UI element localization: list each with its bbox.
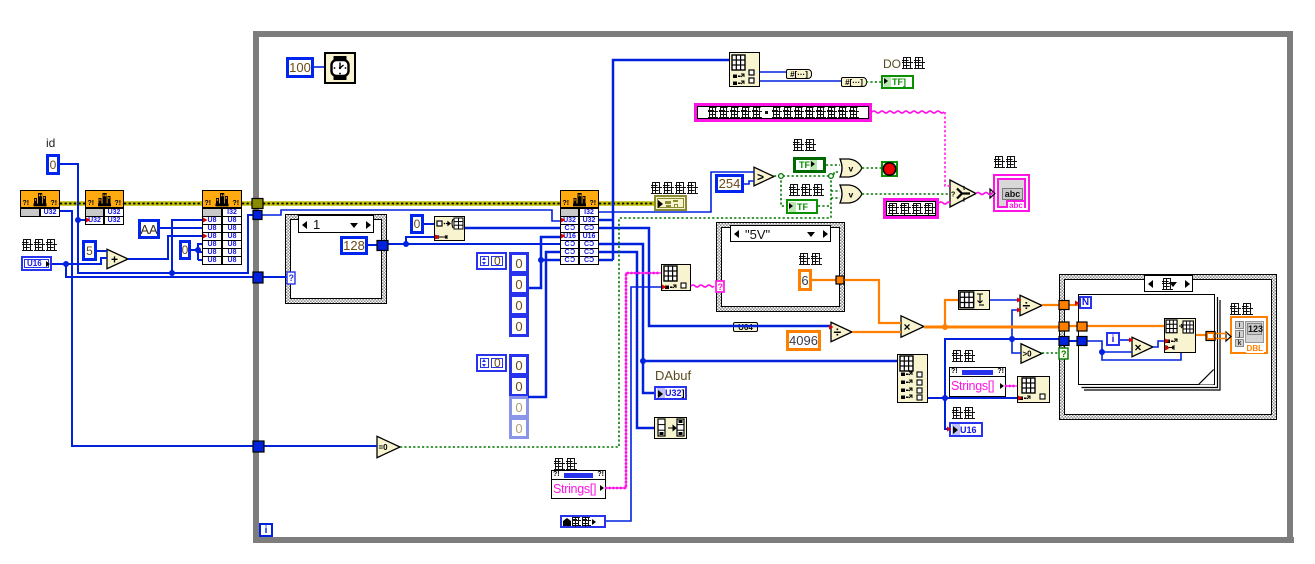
wire i out <box>1120 339 1132 341</box>
DAbuf U32 array control <box>654 386 687 400</box>
wire 0b s3 <box>198 259 202 261</box>
wire 5 to add <box>97 250 107 252</box>
wire or1 in2 <box>831 172 840 176</box>
wire node4 out <box>1196 334 1207 336</box>
wire 128 out <box>368 244 377 246</box>
wire 0b s1 <box>198 243 202 245</box>
call library function node U2 required dot <box>86 218 91 223</box>
wire 128 to U4 <box>388 243 560 245</box>
wire mid node out <box>691 285 714 287</box>
svg-text:?!: ?! <box>590 200 597 207</box>
wire gt out <box>774 175 831 177</box>
svg-text:?!: ?! <box>51 200 58 207</box>
constant 254 <box>715 174 744 193</box>
call library function node U1 <box>20 190 60 208</box>
out squares <box>749 70 754 75</box>
string constant hardware-abnormal <box>694 103 872 122</box>
wire init out <box>465 227 560 230</box>
call library function node U3 required dot <box>203 234 208 239</box>
for loop stacked edges <box>1082 297 1221 390</box>
svg-text:?: ? <box>1061 349 1067 359</box>
index array node mid <box>661 264 691 291</box>
node3 elem <box>1019 396 1030 400</box>
call library function node U3 <box>202 190 242 208</box>
build array node <box>1164 318 1196 353</box>
wire c31 u64 <box>599 228 831 326</box>
tunnel truecase or1 <box>1059 301 1069 310</box>
wire local up <box>606 287 661 521</box>
svg-text:?!: ?! <box>115 200 122 207</box>
label array <box>1229 303 1253 317</box>
call library function node U2 icon <box>98 193 111 206</box>
mid elem <box>665 285 676 289</box>
junction right node <box>942 395 948 401</box>
or junction rings <box>779 174 784 179</box>
tunnel blue T2 <box>253 272 263 283</box>
add function <box>107 249 128 269</box>
tunnel truecase selector <box>1059 348 1068 359</box>
call library function node U2 <box>85 190 124 208</box>
wire or1 out <box>862 167 881 169</box>
init array dim input <box>435 235 440 240</box>
svg-text:v: v <box>849 164 854 174</box>
wire x2 out <box>1153 341 1164 347</box>
index array mid icon <box>664 266 677 281</box>
case structure 5V <box>716 222 845 312</box>
tunnel 5v out <box>836 276 844 284</box>
svg-text:?!: ?! <box>563 200 570 207</box>
wire str abnormal down <box>945 112 950 186</box>
junction array1 <box>538 257 544 263</box>
hint string indicator <box>993 174 1030 212</box>
wire id to U2 <box>78 219 85 221</box>
case selector 1 <box>298 215 374 233</box>
or function 1 <box>840 159 862 177</box>
constant AA <box>138 219 160 239</box>
local variable range <box>560 515 606 528</box>
U64 conversion label <box>733 322 758 332</box>
stop TF control <box>793 157 826 173</box>
DO monitor TF indicator <box>881 75 914 89</box>
multiply function 2 <box>1132 337 1153 357</box>
wire array out b <box>1214 338 1227 340</box>
constant 128 <box>340 236 368 255</box>
case structure 1 <box>285 214 387 304</box>
tunnel case1 selector <box>287 272 295 284</box>
elem 1 <box>901 380 912 384</box>
svg-text:?!: ?! <box>205 200 212 207</box>
error out cluster indicator <box>654 195 687 211</box>
wire up 339 <box>945 339 1059 398</box>
watch icon <box>332 56 349 80</box>
elem 3 <box>901 395 912 399</box>
svg-text:×: × <box>904 320 911 334</box>
wire 6 out <box>812 279 837 281</box>
wire to u16 ind <box>945 398 949 429</box>
number to boolean array 1 <box>786 69 812 79</box>
initialize array node <box>434 216 465 241</box>
junction 0b <box>195 247 201 253</box>
label DO monitor <box>883 57 925 71</box>
wire idx out2 <box>760 80 841 82</box>
divide function 2 <box>1020 295 1042 315</box>
index array node right <box>897 354 928 403</box>
call library function node U4 <box>560 190 599 208</box>
label stop <box>792 139 816 153</box>
wire tunnel1 long <box>262 210 560 221</box>
wire x2 in2 <box>1102 351 1132 353</box>
node3 icon <box>1022 378 1035 393</box>
wire error err seg4 <box>263 201 560 206</box>
divide function 1 <box>831 322 852 342</box>
for loop count terminal N <box>1079 296 1092 309</box>
svg-text:=0: =0 <box>379 443 389 452</box>
tunnel blue T3 <box>253 441 264 452</box>
constant id 0 <box>46 154 60 175</box>
wire array1 branch <box>541 259 560 262</box>
card status TF indicator <box>786 199 818 214</box>
wire 100 to timer <box>314 66 324 68</box>
wire to maxmin <box>945 300 958 327</box>
for loop <box>1078 294 1215 385</box>
node4 elems <box>1166 339 1177 343</box>
initialize array icon <box>437 218 463 239</box>
wire mult out <box>924 326 1059 329</box>
wire do vertical <box>613 60 729 260</box>
wire or2 in1 <box>831 190 840 192</box>
label range bottom <box>553 458 577 472</box>
wire strings1 chain <box>606 273 661 488</box>
wire c32 branch <box>643 360 897 363</box>
elem 2 <box>901 388 912 392</box>
constant 6 <box>798 269 812 291</box>
while loop border <box>253 31 1293 37</box>
u16 coercion <box>947 427 952 432</box>
svg-text:?: ? <box>951 192 955 199</box>
svg-text:÷: ÷ <box>834 324 842 340</box>
wire case blue in <box>1069 340 1078 342</box>
call library function node U4 required dot <box>561 234 566 239</box>
elem 0 <box>901 372 912 376</box>
label sample-rate <box>21 239 57 253</box>
label error-out <box>650 182 698 196</box>
while loop iteration terminal i <box>259 523 273 537</box>
node3 input <box>1018 396 1023 401</box>
svg-text:>0: >0 <box>1023 350 1033 359</box>
tunnel case1 out <box>377 241 388 251</box>
label range right-top <box>951 350 975 364</box>
call library function node U4 icon <box>573 193 586 206</box>
constant 0 b <box>179 240 191 260</box>
stop button <box>881 161 898 177</box>
bool array icon <box>658 419 684 436</box>
tunnel forloop or <box>1077 322 1087 331</box>
array indicator arrow <box>1226 332 1231 341</box>
svg-text:?: ? <box>289 273 295 283</box>
wire 128 branch up <box>406 237 434 244</box>
wire forloop blue <box>1087 341 1181 360</box>
index array node top <box>729 52 760 87</box>
node4 dims <box>1166 345 1174 350</box>
index array icon <box>732 55 745 70</box>
div2 c2 <box>1017 308 1022 313</box>
stop button red circle <box>883 163 895 175</box>
node4 icon <box>1166 320 1193 333</box>
wire or2 out <box>862 193 950 195</box>
wire AA out <box>160 227 202 229</box>
for loop iteration terminal i <box>1106 332 1120 346</box>
wire gt down tf <box>781 176 786 206</box>
multiply function <box>901 316 924 337</box>
label range 5V <box>798 253 822 267</box>
tunnel error olive <box>252 199 263 209</box>
tunnel truecase blue <box>1059 337 1069 346</box>
wire tf out <box>818 205 831 207</box>
wire maxmin out <box>990 299 1020 301</box>
wire error err seg1 <box>60 201 85 206</box>
label card status <box>788 184 824 198</box>
svg-text:v: v <box>849 190 854 200</box>
label id <box>46 137 55 150</box>
call library function node U4 required dot <box>561 218 566 223</box>
junction id U2 <box>75 217 81 223</box>
wire 254 out <box>744 181 754 184</box>
boolean array to number node <box>654 417 687 439</box>
tunnel forloop index out <box>1206 332 1215 341</box>
wire c33 bool <box>599 252 654 428</box>
wire div1 out <box>852 331 901 333</box>
mid node input <box>662 285 667 290</box>
svg-text:×: × <box>1135 341 1142 355</box>
equal-zero function <box>377 436 400 457</box>
wire right node out <box>928 397 1017 399</box>
call library function node U3 icon <box>216 193 229 206</box>
svg-text:>: > <box>757 170 764 184</box>
wire div2 out <box>1042 304 1059 306</box>
tunnel 5v selector <box>716 281 724 292</box>
wire 0b vert <box>197 243 199 260</box>
junction 339 <box>1009 336 1015 342</box>
constant 5 <box>82 240 97 261</box>
wire c34 stub <box>599 259 613 262</box>
array constant 1 <box>476 252 507 270</box>
array indicator <box>1230 316 1268 354</box>
or function 2 <box>840 185 862 203</box>
wire stop to or1 <box>826 164 840 166</box>
wire array1 out <box>529 237 560 288</box>
wire v 831 <box>830 176 832 218</box>
svg-text:?!: ?! <box>23 200 30 207</box>
wire 0b s2 <box>198 251 202 253</box>
wire error err seg2 <box>124 201 202 206</box>
junction c32 <box>640 358 646 364</box>
wire str normal <box>939 202 950 204</box>
greater-than function <box>754 167 774 186</box>
tunnel truecase or2 <box>1059 322 1069 331</box>
svg-text:+: + <box>111 253 118 267</box>
hint input arrow <box>990 189 995 198</box>
wire error err seg3 <box>242 201 253 206</box>
svg-text:?!: ?! <box>88 200 95 207</box>
svg-text:?!: ?! <box>233 200 240 207</box>
wire add out <box>128 236 202 259</box>
junction x2 <box>1099 349 1105 355</box>
wire array2 out <box>528 252 560 397</box>
wire bool2tf <box>866 81 881 83</box>
wire str abnormal <box>872 111 944 113</box>
tunnel blue T1 <box>253 211 262 220</box>
range U16 indicator <box>949 422 983 437</box>
junction id U3 <box>169 270 175 276</box>
index array node 3 <box>1017 376 1050 403</box>
wire strings2 chain <box>1006 385 1017 387</box>
wire select out <box>976 193 993 195</box>
strings property node 2 <box>949 367 1006 397</box>
wire gt0 out <box>1042 352 1059 354</box>
div2 c1 <box>1017 298 1022 303</box>
array max icon <box>960 292 984 308</box>
wait ms timer function <box>324 52 356 84</box>
case selector 5V <box>730 225 831 242</box>
tunnel forloop blue <box>1077 337 1087 346</box>
label hint <box>993 156 1017 170</box>
div1 coercion <box>829 325 834 330</box>
call library function node U3 required dot <box>203 218 208 223</box>
wire c32 dabuf <box>599 244 654 393</box>
string constant hardware-normal <box>883 198 939 219</box>
x2 in dot <box>1129 338 1134 343</box>
label range right-bottom <box>951 407 975 421</box>
wire id to U3 <box>172 220 202 273</box>
svg-text:÷: ÷ <box>1023 297 1031 313</box>
svg-text:?: ? <box>718 282 724 292</box>
constant 4096 <box>786 330 821 351</box>
strings property node 1 <box>551 470 606 499</box>
wire error err seg5 <box>599 201 654 206</box>
array constant 2 <box>476 354 507 372</box>
wire U1 out to =0 <box>60 211 377 446</box>
wire 0b fan <box>191 249 198 251</box>
constant 0 c <box>410 214 424 234</box>
wire case or2 <box>1069 325 1164 327</box>
wire div2 in <box>1012 310 1020 339</box>
node4 in2 <box>1165 346 1170 351</box>
select function <box>950 180 976 207</box>
N coercion <box>1075 301 1080 306</box>
greater-than-zero function <box>1021 344 1042 364</box>
control sample-rate U16 <box>21 256 52 271</box>
wire 5v to mult <box>843 280 901 323</box>
junction samplerate <box>63 261 69 267</box>
call library function node U1 icon <box>34 193 47 206</box>
constant 100 <box>286 57 314 78</box>
case structure true <box>1059 274 1277 420</box>
wire 0c to init <box>424 223 434 225</box>
junction mult <box>942 324 948 330</box>
array max-min node <box>958 290 990 310</box>
wire case or1 <box>1069 304 1078 306</box>
index rows <box>733 74 744 78</box>
node4 in1 <box>1165 339 1170 344</box>
case selector true <box>1144 275 1193 292</box>
right node icon <box>900 356 913 371</box>
wire samplerate <box>52 258 107 264</box>
wire eq0 out <box>400 218 831 447</box>
svg-text:t: t <box>963 186 965 192</box>
wire id down <box>60 164 254 273</box>
number to boolean array 2 <box>841 77 867 87</box>
wire idx out1 <box>760 71 786 73</box>
wire samplerate down <box>66 264 287 277</box>
label DAbuf <box>655 369 691 382</box>
wire array out a <box>1214 333 1227 335</box>
wire I32 to gt <box>599 172 754 212</box>
wire gt0 in <box>1012 339 1021 353</box>
wire or2 in2 <box>831 197 840 199</box>
junction 128 <box>403 241 409 247</box>
wire U32row up <box>599 219 613 222</box>
